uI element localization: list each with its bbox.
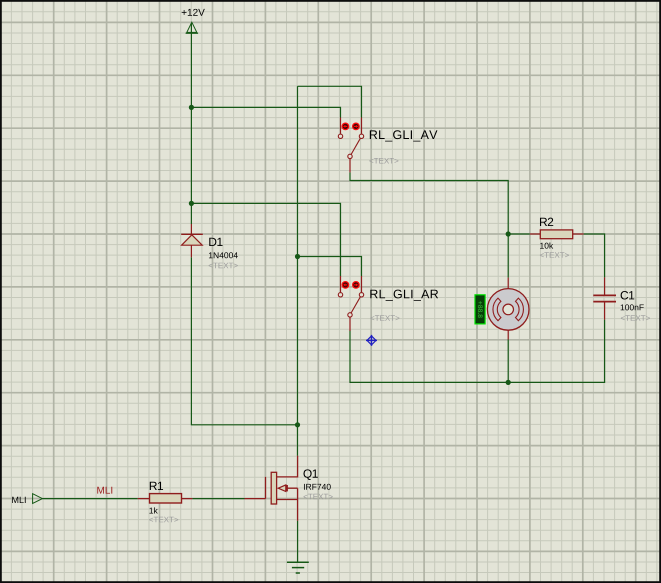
value IRF740 [304, 484, 331, 490]
node junction bottom rail / Q1 drain [295, 422, 300, 427]
label relay AV <TEXT> [369, 158, 398, 164]
value 1N4004 [209, 252, 238, 258]
net label MLI (red) [97, 487, 112, 494]
resistor R2 [530, 230, 584, 239]
relay RL_GLI_AR switch arm [350, 295, 362, 315]
motor speed readout (+88.8 green display) [474, 294, 485, 324]
label C1 <TEXT> [621, 315, 650, 321]
power terminal +12V symbol [186, 22, 199, 33]
motor body (DC motor) [487, 289, 529, 331]
value 1k [149, 507, 157, 513]
label R2 [540, 218, 553, 226]
wire R2 left lead link [508, 233, 530, 235]
node junction motor bottom rail [506, 380, 511, 385]
node junction center net / relay AR right feed [295, 254, 300, 259]
relay RL_GLI_AV state marker right (red, arrow right) [352, 123, 360, 131]
node junction motor top / R2 [506, 231, 511, 236]
label R2 <TEXT> [540, 252, 569, 258]
label D1 [209, 238, 222, 246]
relay RL_GLI_AV contact pins [341, 118, 362, 134]
node junction relay AR left feed [189, 201, 194, 206]
transistor Q1 IRF740 (N-MOSFET) [245, 456, 298, 521]
origin marker (blue) [366, 335, 377, 346]
label relay AR <TEXT> [370, 315, 399, 321]
wire Q1 source to ground [297, 521, 299, 563]
label D1 <TEXT> [209, 263, 238, 269]
relay RL_GLI_AR contact terminal circles [338, 293, 342, 297]
label MLI (terminal) [12, 497, 25, 503]
wire R1 to Q1 gate [192, 498, 244, 500]
relay RL_GLI_AV pole terminal circle [348, 154, 352, 158]
value 100nF [621, 304, 644, 310]
wire relay AR right contact feed y=256 [298, 257, 362, 277]
wire motor top link [507, 234, 509, 278]
relay RL_GLI_AV pole pin [349, 159, 351, 173]
relay RL_GLI_AR state marker right (red, arrow right) [352, 281, 360, 289]
wire R2 right to C1 top rail [584, 234, 605, 277]
wire Q1 drain riser [297, 425, 299, 456]
relay RL_GLI_AV state marker left (red, arrow left) [342, 123, 350, 131]
relay RL_GLI_AR pole terminal circle [348, 313, 352, 317]
wire relay AR pole to bottom rail and C1 bottom [350, 320, 605, 383]
relay RL_GLI_AR state marker left (red, arrow left) [342, 281, 350, 289]
capacitor C1 100nF [593, 277, 616, 319]
relay RL_GLI_AV switch arm [350, 136, 362, 156]
motor pins [507, 278, 509, 340]
wire center vertical net x=297 [297, 86, 299, 425]
input terminal MLI [33, 494, 43, 504]
label C1 [621, 291, 635, 299]
wire motor bottom link [507, 340, 509, 383]
label RL_GLI_AR [370, 290, 438, 301]
wire relay AV pole to motor-top node [350, 172, 508, 234]
relay RL_GLI_AR contact pins [341, 276, 362, 292]
value 10k [540, 242, 553, 248]
wire +12V rail vertical x=191 [190, 23, 192, 224]
label R1 <TEXT> [149, 517, 178, 523]
wire MLI terminal to R1 [42, 498, 137, 500]
label Q1 <TEXT> [304, 494, 333, 500]
wire relay AV right contact feed top jumper y=86 [298, 86, 362, 117]
label RL_GLI_AV [370, 130, 438, 141]
relay RL_GLI_AV contact terminal circles [338, 134, 342, 138]
resistor R1 [138, 494, 193, 503]
diode D1 1N4004 [181, 224, 203, 257]
label Q1 [303, 469, 317, 480]
label +12V [182, 9, 205, 16]
wire relay AR left contact feed y=203 [191, 203, 340, 276]
wire D1 anode to bottom rail [191, 257, 297, 425]
relay RL_GLI_AR pole pin [349, 317, 351, 331]
ground [287, 562, 309, 573]
node junction +12V rail / relay AV feed [189, 105, 194, 110]
wire relay AV left contact feed y=107 [191, 107, 340, 117]
label R1 [150, 482, 163, 490]
